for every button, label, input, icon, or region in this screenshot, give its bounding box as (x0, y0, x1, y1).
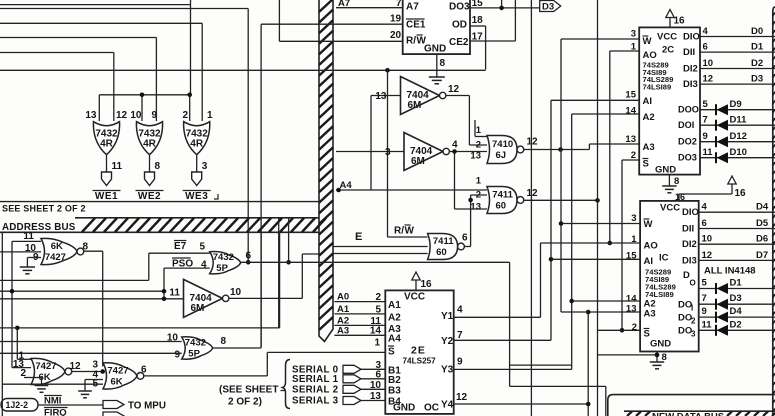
svg-text:13: 13 (470, 202, 481, 213)
svg-text:2: 2 (691, 317, 696, 326)
svg-text:Y1: Y1 (441, 311, 454, 322)
svg-text:19: 19 (390, 14, 402, 25)
svg-text:9: 9 (457, 357, 463, 368)
svg-text:13: 13 (375, 91, 387, 102)
svg-text:D11: D11 (730, 115, 748, 126)
svg-text:7427: 7427 (45, 252, 66, 263)
svg-text:DIO: DIO (682, 207, 699, 218)
svg-text:AI: AI (643, 96, 653, 107)
svg-text:S: S (643, 159, 649, 170)
svg-text:S: S (644, 329, 650, 340)
svg-text:SERIAL 3: SERIAL 3 (292, 396, 339, 407)
svg-text:6J: 6J (496, 150, 507, 161)
svg-text:6: 6 (462, 233, 468, 244)
svg-text:1: 1 (476, 125, 482, 136)
svg-text:GND: GND (424, 44, 446, 55)
svg-text:VCC: VCC (660, 203, 680, 214)
svg-text:B2: B2 (388, 375, 401, 386)
svg-text:6M: 6M (191, 303, 205, 314)
svg-text:11: 11 (112, 161, 123, 172)
svg-text:2E: 2E (411, 345, 426, 357)
svg-text:GND: GND (655, 165, 676, 176)
svg-text:(SEE SHEET: (SEE SHEET (219, 385, 278, 396)
svg-text:5: 5 (702, 278, 708, 289)
svg-text:14: 14 (625, 106, 636, 117)
svg-text:10: 10 (130, 110, 142, 121)
svg-text:16: 16 (421, 279, 433, 290)
svg-text:10: 10 (703, 58, 714, 69)
svg-text:S: S (388, 347, 395, 358)
svg-text:AO: AO (643, 50, 657, 61)
svg-text:3: 3 (631, 213, 636, 224)
svg-text:16: 16 (675, 192, 685, 202)
svg-text:SERIAL 2: SERIAL 2 (292, 384, 339, 395)
svg-text:12: 12 (702, 250, 713, 261)
svg-text:60: 60 (436, 247, 447, 258)
svg-text:6K: 6K (51, 241, 63, 252)
svg-text:W: W (405, 226, 415, 237)
svg-text:1: 1 (631, 234, 637, 245)
svg-text:7427: 7427 (107, 365, 128, 376)
svg-text:11: 11 (23, 231, 34, 242)
svg-text:DO2: DO2 (678, 137, 697, 147)
svg-text:4R: 4R (143, 139, 157, 150)
svg-text:74LS257: 74LS257 (403, 357, 437, 366)
svg-text:D0: D0 (751, 26, 763, 37)
svg-text:12: 12 (703, 74, 714, 85)
svg-text:OD: OD (452, 20, 467, 31)
svg-text:9: 9 (151, 110, 157, 121)
svg-text:3: 3 (691, 330, 696, 339)
svg-text:DI3: DI3 (682, 255, 697, 266)
svg-text:2: 2 (182, 110, 188, 121)
svg-text:2: 2 (631, 150, 636, 161)
svg-text:13: 13 (626, 304, 637, 315)
svg-text:2: 2 (632, 322, 637, 333)
svg-text:13: 13 (470, 151, 481, 162)
svg-text:ADDRESS BUS: ADDRESS BUS (2, 222, 76, 233)
svg-text:AI: AI (644, 256, 654, 267)
svg-text:D6: D6 (756, 234, 768, 245)
svg-text:WE1: WE1 (95, 191, 118, 202)
svg-text:IC: IC (659, 253, 669, 264)
svg-text:AO: AO (644, 241, 658, 252)
svg-text:A1: A1 (337, 304, 350, 315)
svg-text:4: 4 (457, 305, 463, 316)
svg-text:A4: A4 (340, 180, 353, 191)
svg-text:7411: 7411 (433, 236, 454, 247)
svg-text:Y3: Y3 (441, 365, 454, 376)
svg-text:7427: 7427 (35, 361, 56, 372)
svg-text:3: 3 (631, 29, 636, 40)
svg-text:DOO: DOO (678, 105, 699, 115)
svg-text:D3: D3 (751, 74, 763, 85)
svg-text:D4: D4 (756, 202, 769, 213)
svg-text:O: O (690, 279, 696, 288)
svg-text:7411: 7411 (492, 190, 513, 201)
svg-text:DI2: DI2 (683, 64, 698, 75)
svg-text:12: 12 (70, 361, 82, 372)
svg-text:A3: A3 (644, 309, 656, 320)
svg-text:4: 4 (201, 260, 207, 271)
svg-text:D2: D2 (730, 319, 742, 330)
svg-text:13: 13 (85, 110, 97, 121)
svg-text:4: 4 (703, 26, 709, 37)
svg-text:DI2: DI2 (682, 239, 697, 250)
svg-text:1: 1 (631, 42, 637, 53)
svg-text:FIRQ: FIRQ (44, 408, 67, 416)
svg-text:10: 10 (702, 234, 713, 245)
svg-text:6: 6 (702, 218, 707, 229)
svg-text:8: 8 (440, 58, 446, 69)
svg-text:4R: 4R (100, 139, 114, 150)
svg-text:16: 16 (674, 16, 686, 27)
svg-text:6: 6 (703, 42, 708, 53)
svg-text:D2: D2 (751, 58, 763, 69)
svg-text:B3: B3 (388, 385, 401, 396)
svg-text:15: 15 (625, 90, 636, 101)
svg-text:D3: D3 (542, 2, 554, 13)
svg-text:VCC: VCC (657, 32, 677, 43)
svg-text:9: 9 (702, 306, 707, 317)
svg-text:E7: E7 (174, 241, 187, 252)
svg-text:DI3: DI3 (683, 79, 698, 90)
svg-text:18: 18 (472, 15, 484, 26)
svg-text:D7: D7 (756, 250, 768, 261)
svg-text:11: 11 (169, 288, 180, 299)
svg-text:12: 12 (527, 188, 539, 199)
svg-text:CE1: CE1 (406, 20, 426, 31)
svg-text:8: 8 (155, 161, 161, 172)
svg-text:OC: OC (424, 403, 439, 414)
svg-text:DIO: DIO (683, 32, 700, 43)
svg-text:1: 1 (207, 110, 213, 121)
svg-text:5: 5 (703, 99, 709, 110)
svg-text:1: 1 (374, 338, 380, 349)
svg-text:12: 12 (527, 137, 539, 148)
svg-text:2C: 2C (662, 45, 674, 56)
svg-text:A1: A1 (388, 300, 401, 311)
svg-text:9: 9 (703, 131, 708, 142)
svg-text:2 OF 2): 2 OF 2) (228, 397, 262, 408)
svg-text:2: 2 (476, 140, 481, 151)
svg-text:6: 6 (141, 365, 147, 376)
svg-text:3: 3 (202, 161, 208, 172)
svg-text:DII: DII (683, 47, 695, 58)
svg-text:9: 9 (174, 350, 180, 361)
svg-text:6: 6 (246, 251, 252, 262)
svg-text:A7: A7 (406, 2, 419, 13)
svg-text:7432: 7432 (185, 338, 206, 349)
svg-text:12: 12 (456, 392, 468, 403)
svg-text:3: 3 (385, 147, 391, 158)
svg-text:5P: 5P (188, 349, 200, 360)
svg-text:6K: 6K (111, 376, 123, 387)
svg-text:A4: A4 (388, 333, 401, 344)
svg-text:4R: 4R (190, 139, 204, 150)
svg-text:16: 16 (735, 188, 747, 199)
svg-text:TO MPU: TO MPU (128, 401, 166, 412)
svg-text:7: 7 (703, 115, 708, 126)
svg-text:6M: 6M (411, 156, 425, 167)
svg-text:5: 5 (200, 242, 206, 253)
svg-text:7: 7 (457, 330, 463, 341)
svg-text:D5: D5 (756, 218, 769, 229)
svg-text:D1: D1 (730, 278, 743, 289)
svg-text:A3: A3 (337, 325, 349, 336)
svg-text:Y4: Y4 (441, 400, 454, 411)
svg-text:CE2: CE2 (449, 37, 469, 48)
svg-text:11: 11 (702, 319, 713, 330)
svg-text:12: 12 (448, 84, 460, 95)
svg-text:4: 4 (702, 202, 708, 213)
svg-text:60: 60 (496, 201, 507, 212)
svg-text:D10: D10 (730, 147, 747, 158)
svg-text:GND: GND (650, 339, 671, 350)
svg-text:7: 7 (702, 293, 707, 304)
svg-text:8: 8 (221, 336, 227, 347)
svg-text:W: W (643, 36, 652, 47)
svg-text:A7: A7 (338, 0, 350, 9)
svg-text:SERIAL 1: SERIAL 1 (292, 374, 339, 385)
svg-text:ALL IN4148: ALL IN4148 (704, 266, 756, 277)
svg-text:R/: R/ (406, 36, 416, 47)
svg-text:D4: D4 (730, 306, 743, 317)
svg-text:WE3: WE3 (185, 191, 208, 202)
svg-text:DO3: DO3 (449, 2, 470, 13)
svg-text:15: 15 (626, 251, 637, 262)
svg-text:11: 11 (703, 147, 714, 158)
svg-text:DO3: DO3 (678, 153, 697, 163)
svg-text:A2: A2 (388, 312, 401, 323)
svg-text:D3: D3 (730, 293, 742, 304)
svg-text:1J2-2: 1J2-2 (6, 400, 29, 410)
svg-text:1: 1 (476, 176, 482, 187)
svg-text:W: W (644, 219, 653, 230)
svg-text:20: 20 (390, 30, 402, 41)
svg-text:D9: D9 (730, 99, 742, 110)
svg-text:DII: DII (682, 224, 694, 235)
svg-text:A0: A0 (337, 292, 349, 303)
svg-text:A3: A3 (643, 142, 655, 153)
svg-text:SEE SHEET 2 OF 2: SEE SHEET 2 OF 2 (2, 204, 86, 214)
svg-text:74LSI89: 74LSI89 (643, 82, 672, 91)
svg-text:10: 10 (230, 287, 242, 298)
svg-text:A2: A2 (643, 112, 655, 123)
svg-text:D12: D12 (730, 131, 747, 142)
svg-text:7410: 7410 (492, 139, 513, 150)
svg-text:R/: R/ (394, 226, 404, 237)
svg-text:E: E (355, 231, 362, 243)
svg-text:GND: GND (393, 403, 415, 414)
svg-text:NEW DATA BUS: NEW DATA BUS (652, 412, 724, 416)
svg-text:4: 4 (452, 140, 458, 151)
svg-text:12: 12 (116, 110, 128, 121)
svg-text:7432: 7432 (213, 252, 234, 263)
svg-text:6M: 6M (408, 100, 422, 111)
svg-text:WE2: WE2 (138, 191, 161, 202)
svg-text:D1: D1 (751, 42, 764, 53)
svg-text:Y2: Y2 (441, 336, 454, 347)
svg-text:I: I (691, 304, 693, 313)
svg-text:VCC: VCC (404, 292, 425, 303)
svg-text:13: 13 (625, 134, 636, 145)
svg-text:5P: 5P (216, 263, 228, 274)
svg-text:DOI: DOI (678, 120, 694, 130)
